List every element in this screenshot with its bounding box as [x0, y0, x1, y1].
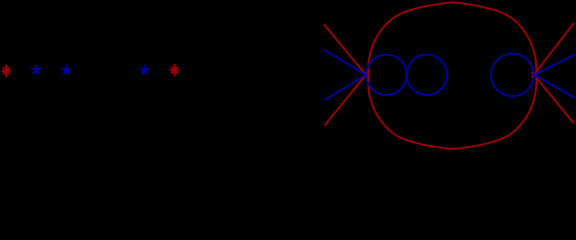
red separatrix down-left at left node [324, 72, 368, 126]
blue star marker 2 [60, 63, 72, 75]
blue loop at right node [491, 54, 534, 97]
blue star marker 3 [139, 63, 151, 75]
red separatrix down-right at right node [532, 72, 575, 124]
red oval (superellipse invariant curve) [368, 2, 537, 149]
blue loop 2 chained to loop 1 [407, 55, 447, 95]
blue separatrix down-left at left node [325, 75, 367, 101]
blue separatrix up-right at right node [534, 54, 575, 75]
red separatrix up-left at left node [324, 25, 368, 78]
blue loop 1 at left node [366, 55, 406, 95]
blue star marker 1 [30, 63, 42, 75]
red asterisk marker 2 [170, 64, 180, 76]
blue separatrix up-left at left node [324, 50, 367, 76]
red separatrix up-right at right node [532, 23, 575, 78]
red asterisk marker 1 [1, 65, 11, 78]
blue separatrix down-right at right node [534, 75, 575, 98]
